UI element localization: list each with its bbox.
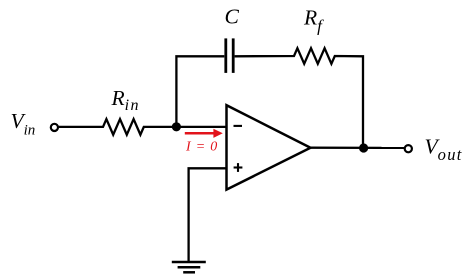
svg-text:C: C	[225, 5, 240, 29]
svg-text:I = 0: I = 0	[185, 140, 218, 155]
